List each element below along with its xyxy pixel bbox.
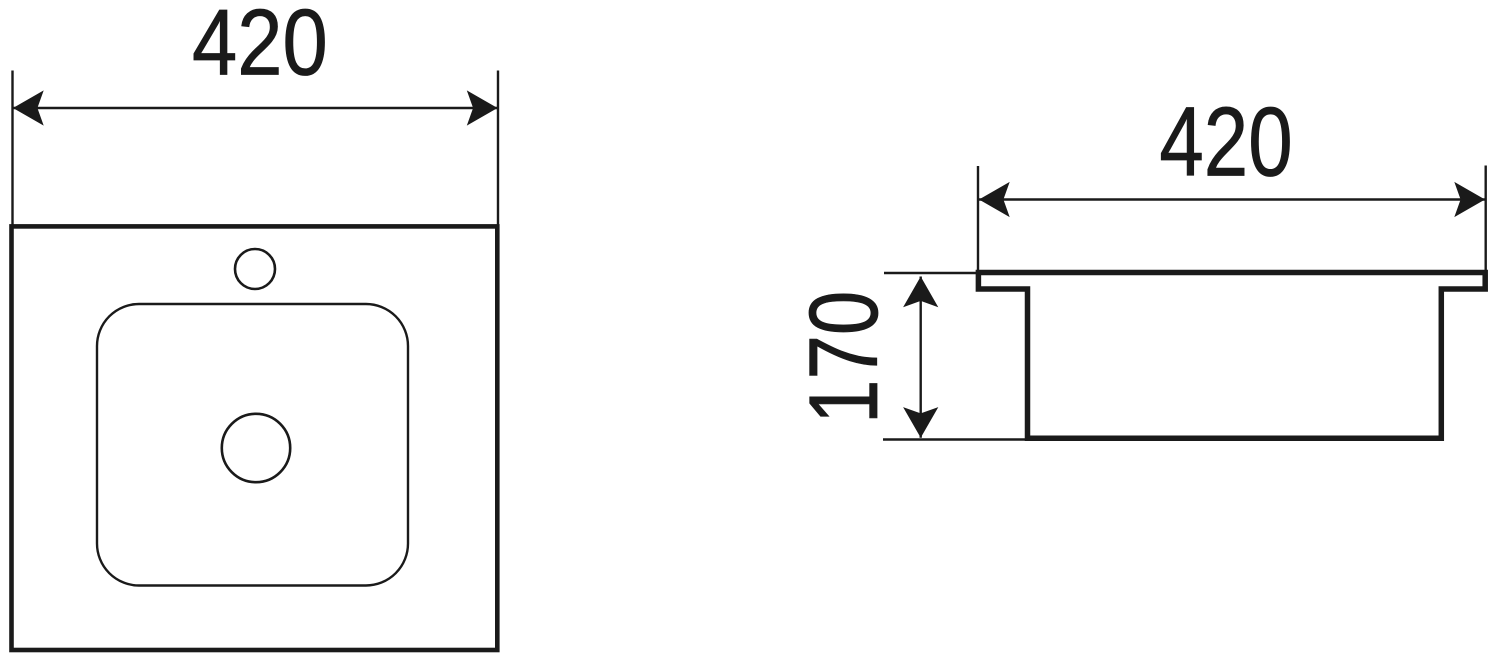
arrow down xyxy=(903,407,938,438)
drain hole xyxy=(222,414,290,482)
dimension line 420 xyxy=(979,198,1485,200)
basin profile xyxy=(978,273,1485,439)
arrow right xyxy=(467,90,498,125)
extension line left (420) xyxy=(977,166,979,281)
arrow left xyxy=(979,182,1010,217)
faucet hole xyxy=(235,249,275,289)
svg-text:420: 420 xyxy=(1159,87,1292,197)
basin rounded rectangle xyxy=(97,304,408,586)
extension line left xyxy=(11,71,13,227)
dimension line 170 xyxy=(920,277,922,438)
extension line right xyxy=(497,71,499,227)
dimension line 420 xyxy=(13,107,498,109)
washbasin outer square xyxy=(12,226,498,650)
extension line top (170) xyxy=(884,272,976,274)
extension line bottom (170) xyxy=(883,438,1027,440)
arrow right xyxy=(1454,182,1485,217)
extension line right (420) xyxy=(1484,166,1486,271)
arrow left xyxy=(13,90,44,125)
svg-text:420: 420 xyxy=(192,0,328,95)
arrow up xyxy=(903,277,938,308)
svg-text:170: 170 xyxy=(788,291,897,424)
